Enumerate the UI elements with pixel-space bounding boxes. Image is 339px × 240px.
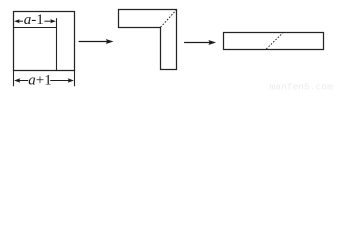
dimension a+1 right arrow [50, 78, 74, 83]
left extension bar below square [13, 71, 15, 87]
L-shaped piece outline [119, 10, 177, 70]
svg-text:manfen5.com: manfen5.com [270, 82, 334, 93]
vertical cut line [56, 18, 58, 70]
transform arrow 2 [184, 40, 216, 45]
final rectangle outline [224, 33, 324, 50]
horizontal cut line [14, 27, 57, 29]
svg-text:a-1: a-1 [24, 12, 44, 28]
dotted fold line on L piece [161, 10, 177, 27]
svg-text:a+1: a+1 [28, 72, 51, 88]
square sheet outline [14, 12, 75, 71]
right extension bar below square [74, 71, 76, 87]
dotted seam line in rectangle [266, 33, 283, 49]
dimension a-1 left arrow [14, 19, 23, 23]
dimension a-1 right arrow [44, 19, 56, 23]
transform arrow 1 [79, 39, 114, 44]
dimension a+1 left arrow [14, 78, 28, 83]
